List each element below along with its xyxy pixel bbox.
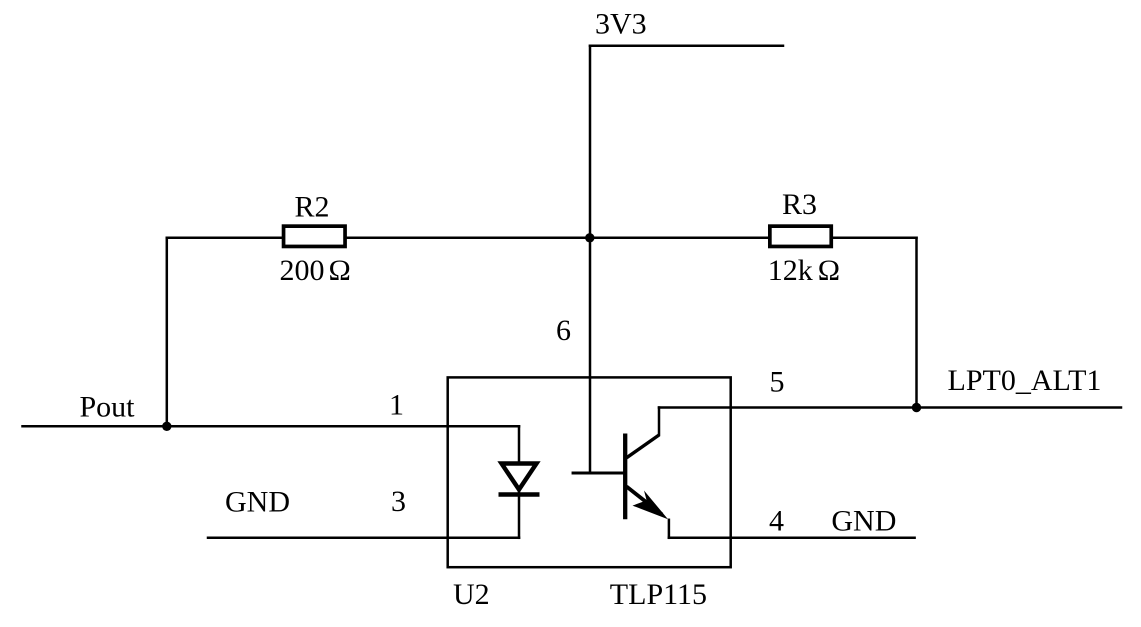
svg-text:6: 6 (556, 314, 571, 347)
transistor emitter vertical down to pin 4 (668, 520, 671, 538)
svg-text:Pout: Pout (80, 391, 136, 424)
LED diode triangle (inside U2) (502, 464, 537, 490)
svg-text:3: 3 (391, 485, 406, 518)
svg-text:U2: U2 (453, 578, 490, 611)
transistor emitter arrowhead (633, 491, 669, 520)
transistor emitter diagonal (627, 487, 663, 515)
svg-text:3V3: 3V3 (595, 8, 647, 41)
junction: Pout node (162, 422, 171, 431)
wire: left vertical down to Pout line (166, 238, 169, 426)
svg-text:LPT0_ALT1: LPT0_ALT1 (948, 364, 1102, 397)
svg-text:4: 4 (769, 505, 784, 538)
wire: pin 4 GND horizontal (669, 537, 915, 540)
transistor base lead horizontal (573, 472, 625, 475)
junction: 3V3 rail meets resistor row (585, 233, 594, 242)
LED anode vertical wire (inside U2) (518, 426, 521, 461)
svg-text:TLP115: TLP115 (610, 578, 707, 611)
svg-text:GND: GND (225, 486, 290, 519)
wire: pin 5 output horizontal LPT0_ALT1 (659, 406, 1121, 409)
transistor collector diagonal (627, 435, 660, 458)
svg-text:R3: R3 (782, 188, 817, 221)
resistor R3 (770, 226, 831, 246)
svg-text:1: 1 (389, 389, 404, 422)
transistor base bar (623, 434, 627, 520)
wire: main vertical from 3V3 rail down to transistor base (pin 6) (589, 46, 592, 473)
svg-text:12kΩ: 12kΩ (768, 254, 840, 287)
junction: LPT0_ALT1 node (912, 403, 921, 412)
wire: 3V3 power rail horizontal (590, 44, 783, 47)
svg-text:200Ω: 200Ω (280, 254, 351, 287)
wire: Pout horizontal to pin 1 (23, 425, 520, 428)
optocoupler U2 body box (448, 377, 731, 567)
wire: horizontal resistor row (167, 237, 917, 240)
svg-text:5: 5 (770, 366, 785, 399)
svg-text:R2: R2 (295, 191, 330, 224)
resistor R2 (284, 226, 346, 246)
wire: right vertical from R3 down to output line (915, 238, 918, 408)
LED cathode bar (499, 492, 540, 497)
transistor collector vertical up to pin 5 (658, 408, 661, 436)
svg-text:GND: GND (831, 505, 896, 538)
LED cathode vertical wire down to pin 3 (518, 492, 521, 538)
wire: pin 3 GND horizontal (208, 537, 519, 540)
